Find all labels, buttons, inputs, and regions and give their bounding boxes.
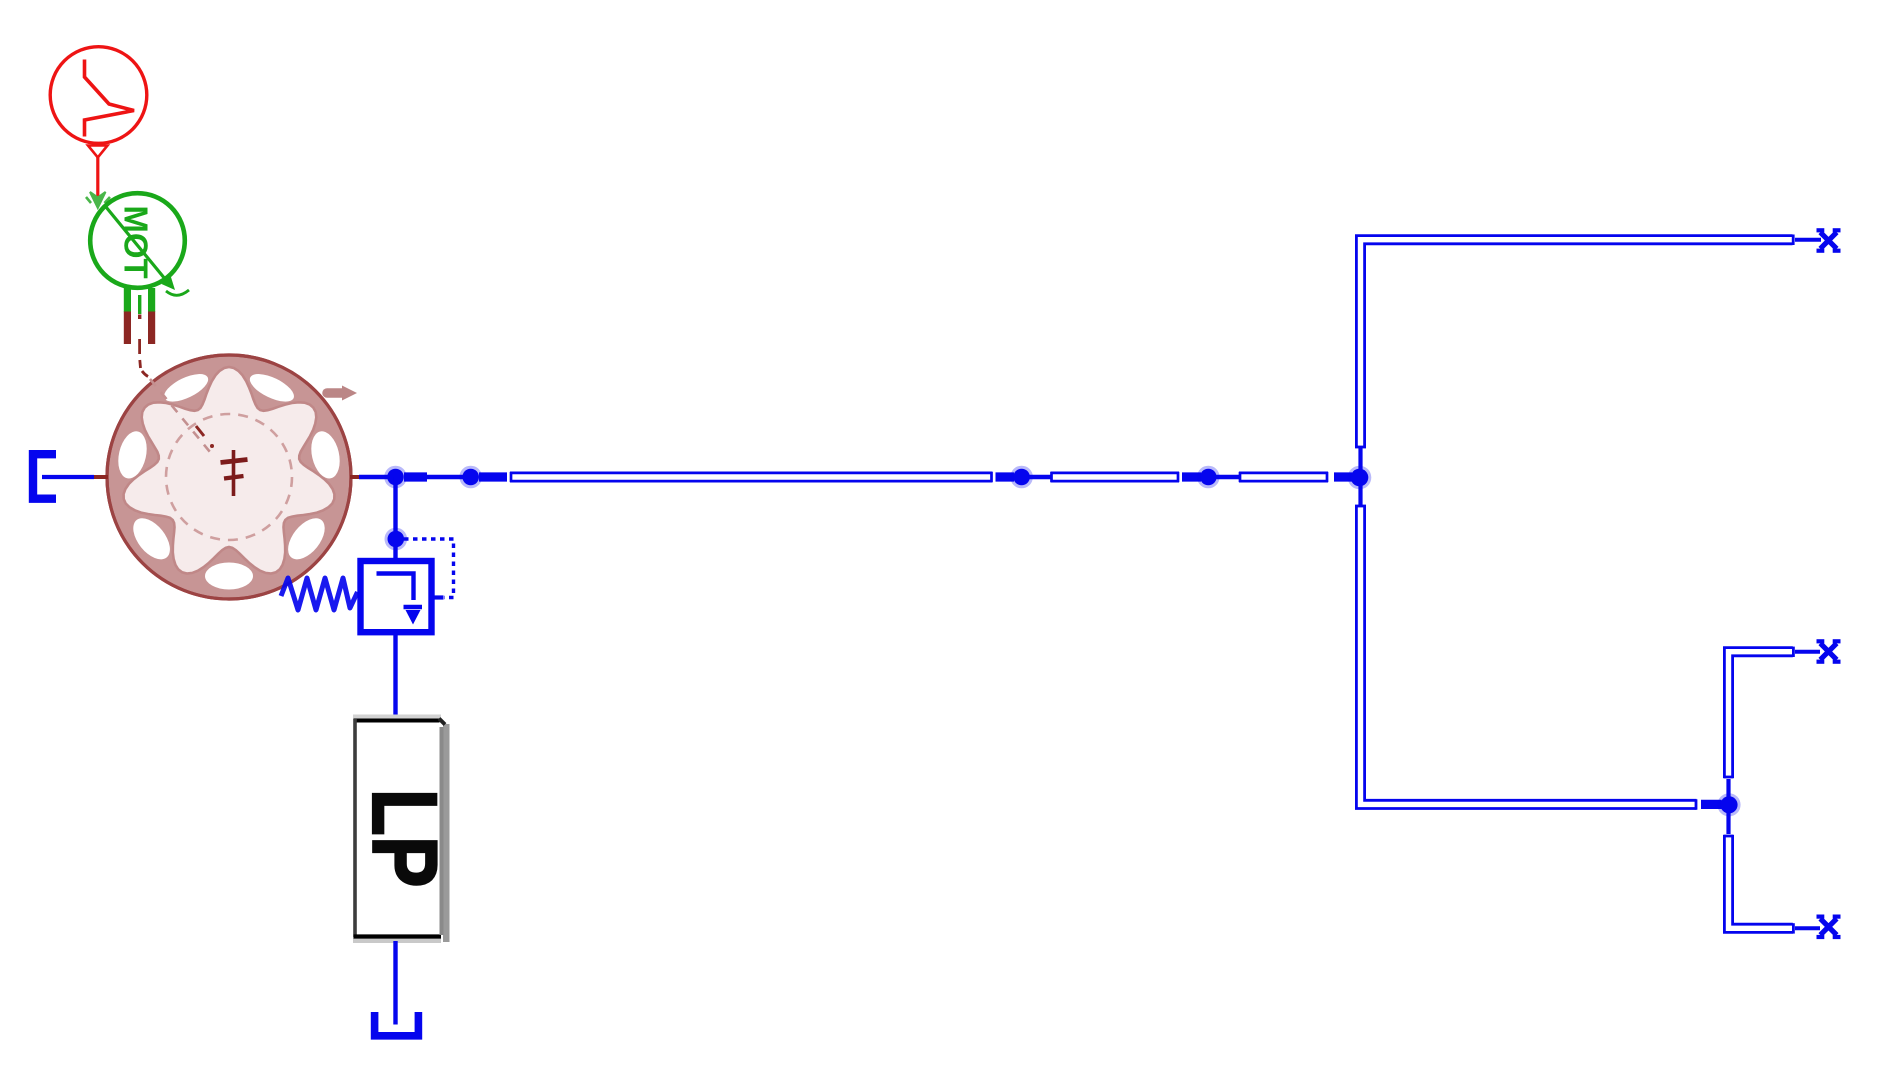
tank (bottom, drain) — [375, 1012, 419, 1036]
connector segment E — [1334, 472, 1352, 481]
node J4 — [1197, 466, 1220, 489]
shaft center dash-dot line — [140, 339, 148, 377]
pump internal dash-dot centre line — [150, 379, 214, 452]
signal source: piecewise-linear input — [50, 47, 147, 144]
wire pump outlet — [359, 475, 390, 479]
node J1 — [384, 466, 407, 489]
wire — [1029, 475, 1051, 479]
riser pipe lower with corner — [1355, 505, 1697, 810]
node J6 (pilot tap) — [385, 528, 408, 551]
wire riser to J5 — [1358, 447, 1362, 470]
wire J7 up — [1726, 779, 1730, 797]
wire J7 down — [1726, 812, 1730, 834]
gauge LP block — [353, 715, 456, 944]
pump centre mark — [221, 450, 248, 496]
pump left port stub — [92, 475, 108, 479]
control arrow into prime mover — [86, 192, 110, 208]
wire to plug X2 — [1795, 650, 1820, 654]
wire J5 down — [1358, 485, 1362, 506]
wire relief valve to gauge — [393, 634, 397, 716]
svg-text:LP: LP — [353, 789, 456, 888]
plug X2 (middle) — [1817, 641, 1841, 661]
pipe main 3 — [1239, 472, 1328, 482]
wire tank to pump inlet — [42, 475, 94, 479]
pilot dashed line — [404, 539, 454, 598]
node J5 (tee to riser) — [1348, 466, 1372, 490]
pipe main 2 — [1051, 472, 1180, 482]
pipe main 1 — [510, 472, 993, 482]
pump rotation arrow — [327, 386, 357, 401]
plug X1 (top) — [1817, 230, 1841, 250]
tank (left, suction) — [33, 454, 56, 499]
riser pipe upper with corner — [1355, 235, 1793, 449]
relief valve spring — [281, 578, 358, 610]
signal wire to prime mover — [96, 156, 99, 198]
node J7 (tee lower branch) — [1717, 793, 1740, 816]
branch pipe upper-right — [1723, 647, 1793, 778]
relief valve pilot stub — [435, 595, 444, 599]
signal source output port triangle — [88, 146, 108, 158]
relief valve body — [361, 561, 432, 632]
connector segment D — [1182, 472, 1201, 481]
wire — [1216, 475, 1240, 479]
prime mover variable arrow — [106, 207, 189, 295]
node J2 — [459, 466, 482, 489]
connector segment F — [1701, 800, 1722, 809]
connector segment C — [996, 472, 1015, 481]
wire J1 down — [393, 477, 397, 531]
shaft: center line — [138, 295, 141, 319]
pump right port stub — [350, 475, 362, 479]
wire — [427, 475, 464, 479]
gear pump body — [107, 355, 351, 599]
connector segment A — [404, 472, 427, 481]
branch pipe lower-right — [1723, 835, 1793, 934]
shaft: right bar — [148, 288, 155, 344]
wire top branch to plug — [1795, 238, 1821, 242]
wire to relief valve — [393, 546, 397, 559]
relief valve internal arrow — [377, 574, 423, 625]
connector segment B — [479, 472, 507, 481]
node J3 — [1010, 466, 1033, 489]
plug X3 (bottom) — [1817, 917, 1841, 937]
shaft: left bar — [124, 288, 131, 344]
wire gauge to tank — [393, 941, 397, 1025]
wire to plug X3 — [1795, 926, 1820, 930]
prime mover MOT circle — [90, 193, 185, 288]
